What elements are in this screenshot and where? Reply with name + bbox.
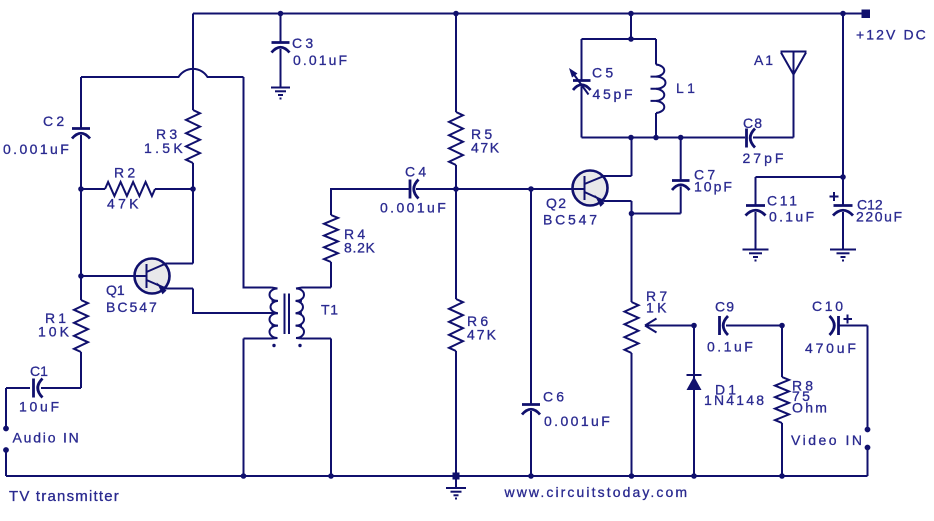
terminal +12V DC square [862,10,871,19]
wire video lower to rail [867,450,869,477]
resistor R2 [81,188,105,190]
svg-text:L1: L1 [676,80,698,96]
svg-text:220uF: 220uF [856,209,904,225]
node dot rail-D1 [691,473,697,479]
wire R3 bottom to Q1 collector [192,163,194,264]
capacitor C1 [6,363,62,415]
ground under C12 [830,250,856,262]
node dot C9-R8 [779,323,785,329]
resistor R8 [775,326,829,477]
wire C11 branch [756,176,844,178]
wire top +12V rail [193,13,862,15]
svg-text:8.2K: 8.2K [344,240,376,256]
wire emitter junction to C7 bottom [632,213,681,215]
svg-text:0.001uF: 0.001uF [544,413,612,429]
terminal Video IN lower [865,445,871,451]
capacitor C7 [672,138,734,214]
wire C2 junction down to Q1 base [80,189,82,276]
wire video column [867,326,869,428]
svg-text:0.1uF: 0.1uF [769,209,816,225]
resistor R6 [455,189,457,299]
wire R1 bottom to C1 [41,352,81,388]
node dot rail-C12 [840,11,846,17]
svg-text:0.01uF: 0.01uF [293,52,349,68]
node dot tank top [628,36,634,42]
svg-text:47K: 47K [467,327,498,343]
node dot rail-R6 ground [453,473,460,480]
svg-text:C5: C5 [592,65,617,81]
svg-text:47K: 47K [471,140,501,156]
svg-text:Q1: Q1 [106,282,125,298]
capacitor C9 [707,299,782,355]
wire T1 bottom-left to rail [243,339,245,477]
node dot rail-T1 right [328,473,334,479]
node dot tank-collector [628,135,634,141]
wire down to T1 top-left [244,77,272,288]
ground under C3 [271,88,290,100]
svg-text:10pF: 10pF [694,179,734,195]
transformer T1 [244,288,339,348]
wire T1 top-right to R4 [330,262,332,288]
capacitor C3 [272,14,350,88]
svg-text:www.circuitstoday.com: www.circuitstoday.com [504,484,690,500]
wire base tap to R1 [80,276,82,300]
svg-text:Q2: Q2 [546,195,567,211]
resistor R5 [455,14,457,113]
svg-text:1K: 1K [646,300,670,316]
node dot rail-R5 [453,11,459,17]
wire Q2 collector to tank [631,138,633,177]
svg-text:C2: C2 [43,113,68,129]
resistor R1 [74,300,88,352]
node dot tank-L1 [653,135,659,141]
node dot rail-R8 [779,473,785,479]
svg-text:1N4148: 1N4148 [704,392,766,408]
svg-text:TV transmitter: TV transmitter [9,488,120,505]
wire audio lower to ground rail [5,452,7,476]
wire audio input drop [5,388,7,426]
svg-text:C3: C3 [292,35,317,51]
node dot rail-C6 [528,473,534,479]
svg-text:470uF: 470uF [805,340,859,356]
node dot rail-C3 [278,11,284,17]
svg-text:Audio IN: Audio IN [13,430,81,446]
svg-text:0.1uF: 0.1uF [707,339,755,355]
capacitor C6 [522,189,612,476]
node dot C9-D1 [691,323,697,329]
transistor Q2 [531,171,632,228]
wire Q2 emitter down to R7 [631,201,633,302]
antenna A1 [754,52,807,138]
resistor R4 [324,215,338,262]
svg-text:A1: A1 [754,52,775,68]
svg-text:C8: C8 [743,115,763,131]
wire Q1 emitter to T1 center tap [193,289,274,314]
terminal Video IN upper [865,427,871,433]
resistor R7 rheostat [625,288,695,476]
capacitor C4 [380,164,573,216]
svg-text:10K: 10K [38,324,72,340]
svg-text:Video IN: Video IN [791,432,864,448]
svg-text:1.5K: 1.5K [144,140,186,156]
resistor R3 [186,110,200,163]
svg-text:C10: C10 [812,298,846,314]
svg-text:C11: C11 [767,193,800,209]
node dot C4-R5R6 [453,186,459,192]
terminal Audio IN lower [3,447,9,453]
wire T1 bottom-right to rail [330,339,332,477]
ground main below rail [446,476,466,500]
terminal Audio IN upper [3,426,9,432]
ground under C11 [743,250,769,262]
node dot rail-T1 left [241,473,247,479]
inductor L1 [651,39,699,138]
svg-text:BC547: BC547 [543,212,600,228]
node dot C11-C12 rail [840,174,846,180]
node dot C4-C6 [528,186,534,192]
svg-text:T1: T1 [321,302,339,318]
svg-text:R2: R2 [114,165,139,181]
capacitor C11 [746,177,817,249]
capacitor C10 [805,298,868,356]
node dot Q1 base tap [78,273,84,279]
node dot R2-R3 [190,186,196,192]
svg-text:45pF: 45pF [593,86,636,102]
svg-text:C9: C9 [715,299,735,315]
wire tank top [582,38,657,40]
wire bottom ground rail [6,475,868,477]
svg-text:27pF: 27pF [743,150,787,166]
wire hop: C2 line to transformer, hops over R3 column [81,69,244,77]
node dot rail-tank [628,11,634,17]
wire tank bottom [582,137,746,139]
wire +12V right column [842,14,844,206]
svg-text:C1: C1 [30,363,48,379]
wire R3 column from rail [192,14,194,111]
capacitor C8 [743,115,794,166]
svg-text:0.001uF: 0.001uF [380,200,448,216]
svg-text:+12V DC: +12V DC [856,27,928,43]
svg-text:47K: 47K [107,196,142,212]
wire left column C2 top [80,77,82,128]
wire tank top entry [630,14,632,40]
capacitor C2 [3,113,90,189]
svg-text:0.001uF: 0.001uF [3,141,71,157]
svg-text:C4: C4 [405,164,430,180]
svg-text:C6: C6 [543,389,567,405]
node dot tank-C7 [678,135,684,141]
diode D1 [687,326,767,477]
node dot emitter-C7 [629,211,635,217]
wire R4 top to C4 [331,189,409,215]
node dot rail-R7 [629,473,635,479]
node dot C2-R2 [78,186,84,192]
capacitor C5 variable [569,39,635,138]
svg-text:10uF: 10uF [19,399,62,415]
svg-text:Ohm: Ohm [792,400,829,416]
capacitor C12 [830,192,904,249]
transistor Q1 [81,259,193,316]
svg-text:BC547: BC547 [106,299,159,315]
